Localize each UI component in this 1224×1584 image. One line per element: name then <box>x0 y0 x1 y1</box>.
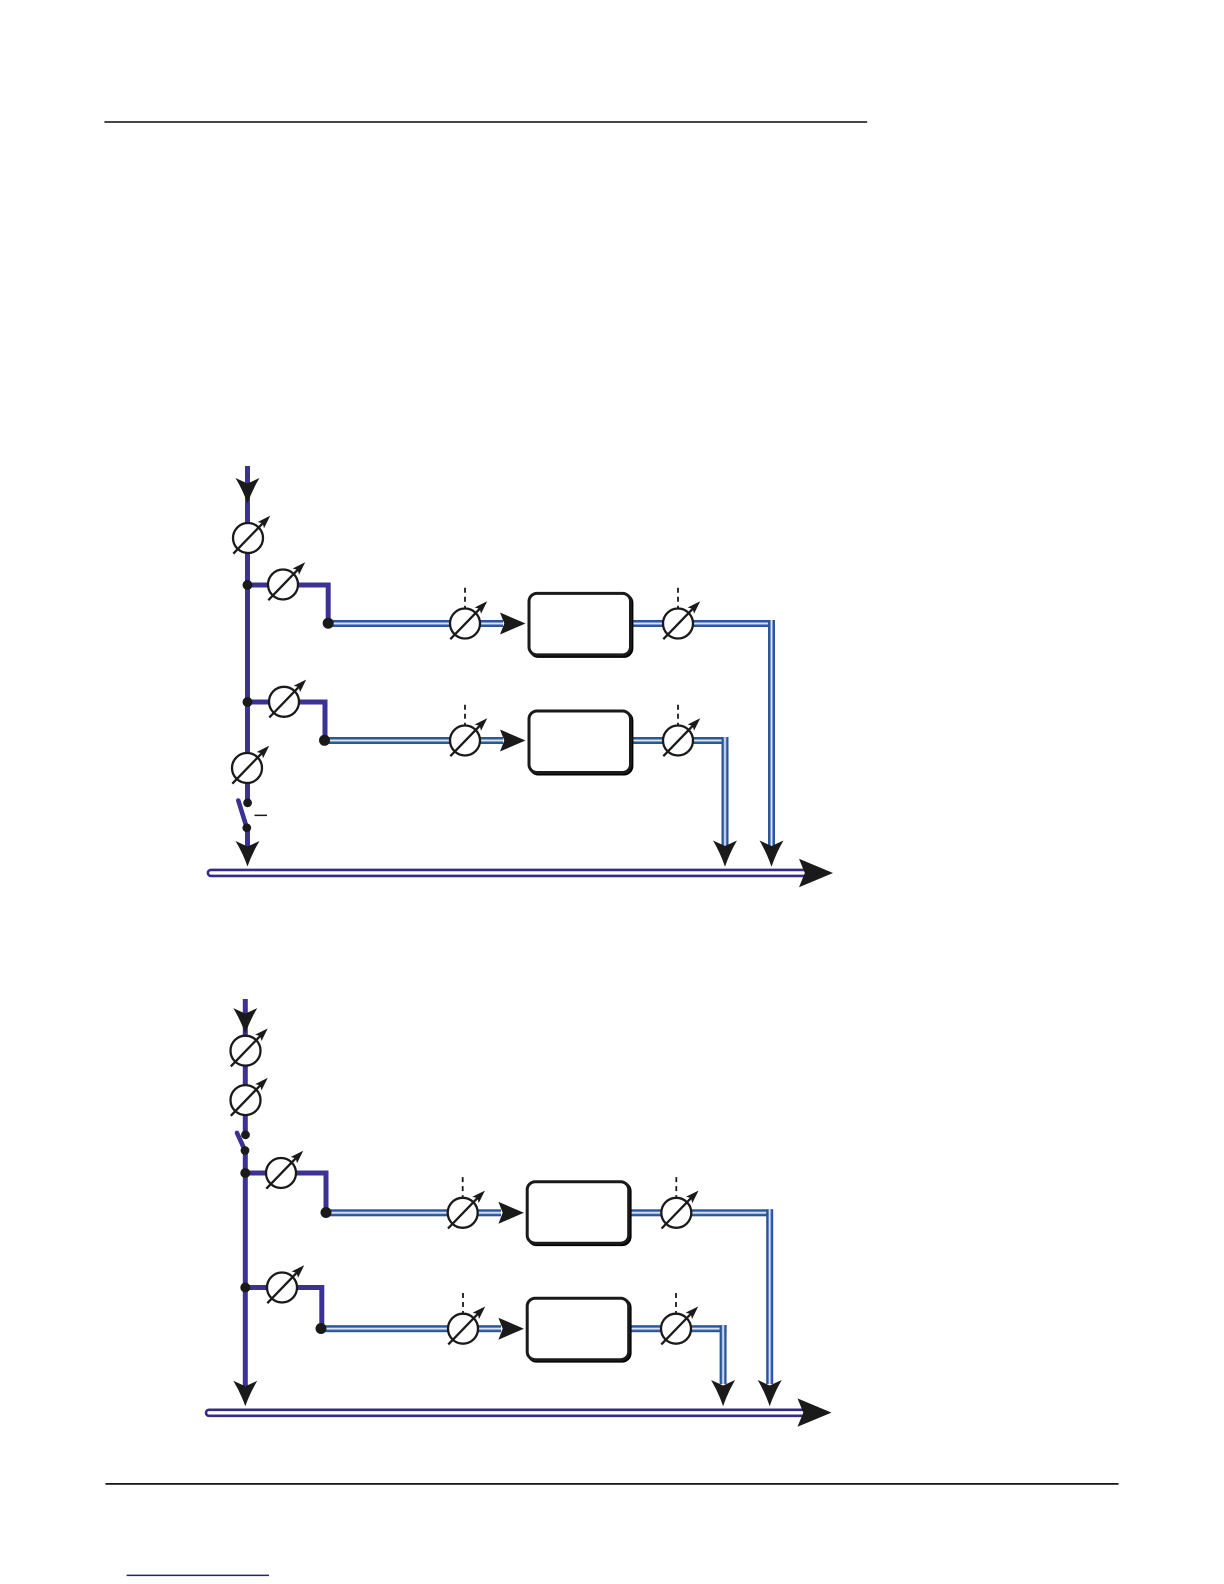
node switch top <box>241 1130 250 1139</box>
valve V4 (branch 2 feeder) <box>267 1267 303 1304</box>
switch S1 dash label <box>255 815 268 817</box>
wire supply pipe branch 2 (right segment) <box>631 737 729 744</box>
wire main supply line (below switch) <box>245 828 250 847</box>
arrow branch 2 to bus <box>711 1380 735 1406</box>
valve V1 (main line) <box>233 517 269 554</box>
wire supply pipe branch 1 (right segment) <box>631 620 776 627</box>
return bus (bottom pipe of diagram 2) <box>206 1410 806 1416</box>
wire supply pipe branch 1 (right segment) <box>629 1209 773 1216</box>
node pipe start 1 <box>321 1207 332 1218</box>
meter M4 (branch 2 outlet) <box>661 1293 697 1344</box>
consumer block 2 <box>529 711 631 773</box>
meter M4 (branch 2 outlet) <box>663 705 699 756</box>
consumer block 1 shadow <box>530 595 632 657</box>
arrow into consumer 2 <box>498 1318 524 1340</box>
wire return drop branch 1 <box>768 620 775 846</box>
header rule <box>104 121 867 123</box>
bus arrow (right) <box>798 1398 832 1426</box>
wire main supply line (below switch) <box>243 1151 248 1387</box>
consumer block 2 shadow <box>529 1300 631 1362</box>
meter M2 (branch 1 outlet) <box>661 1177 697 1228</box>
wire supply pipe branch 2 (left segment) <box>324 737 503 744</box>
arrow main to bus <box>233 1381 257 1407</box>
consumer block 1 <box>529 593 631 655</box>
switch S1 blade <box>238 801 247 828</box>
wire supply pipe branch 1 (left segment) <box>326 1209 501 1216</box>
meter M1 (branch 1 inlet) <box>450 588 486 639</box>
node junction 1 <box>243 580 253 590</box>
node junction 2 <box>240 1283 250 1293</box>
consumer block 2 shadow <box>530 713 632 775</box>
consumer block 2 <box>527 1298 629 1360</box>
footer rule <box>106 1483 1119 1485</box>
arrow into consumer 2 <box>500 730 526 752</box>
node switch bottom <box>242 823 251 832</box>
arrow main to bus <box>236 841 260 867</box>
wire main supply line (upper segment) <box>243 999 248 1136</box>
wire main supply line (upper segment) <box>245 466 250 803</box>
meter M2 (branch 1 outlet) <box>663 588 699 639</box>
wire branch 1 feeder <box>245 1173 326 1211</box>
consumer block 1 shadow <box>529 1183 631 1245</box>
wire branch 2 feeder <box>248 702 326 739</box>
valve V2 (main line) <box>231 1079 267 1116</box>
arrow supply inlet <box>233 1008 257 1034</box>
valve V2 (branch 1 feeder) <box>268 564 304 601</box>
wire branch 2 feeder <box>245 1288 321 1328</box>
node switch top <box>243 798 252 807</box>
node junction 1 <box>240 1168 250 1178</box>
wire return drop branch 2 <box>722 737 729 846</box>
valve V3 (branch 2 feeder) <box>269 681 305 718</box>
arrow supply inlet <box>236 478 260 504</box>
arrow into consumer 1 <box>498 1202 524 1224</box>
switch S2 blade <box>237 1133 245 1151</box>
wire supply pipe branch 2 (right segment) <box>629 1325 727 1332</box>
footnote underline <box>127 1575 269 1577</box>
meter M1 (branch 1 inlet) <box>448 1177 484 1228</box>
arrow branch 1 to bus <box>758 1380 782 1406</box>
return bus (bottom pipe of diagram 1) <box>208 870 810 876</box>
arrow branch 2 to bus <box>713 841 737 867</box>
wire supply pipe branch 2 (left segment) <box>321 1325 501 1332</box>
meter M3 (branch 2 inlet) <box>448 1293 484 1344</box>
consumer block 1 <box>527 1182 629 1244</box>
wire supply pipe branch 1 (left segment) <box>328 620 503 627</box>
node pipe start 1 <box>323 618 334 629</box>
meter M3 (branch 2 inlet) <box>450 705 486 756</box>
valve V4 (main line lower) <box>232 747 268 784</box>
wire return drop branch 2 <box>720 1325 727 1384</box>
bus arrow (right) <box>799 859 833 887</box>
wire branch 1 feeder <box>248 585 329 622</box>
arrow into consumer 1 <box>500 613 526 635</box>
node junction 2 <box>243 697 253 707</box>
node switch bottom <box>241 1146 250 1155</box>
node pipe start 2 <box>319 735 330 746</box>
wire return drop branch 1 <box>766 1209 773 1384</box>
node pipe start 2 <box>316 1323 327 1334</box>
valve V1 (main line) <box>231 1030 267 1067</box>
valve V3 (branch 1 feeder) <box>266 1152 302 1189</box>
arrow branch 1 to bus <box>760 841 784 867</box>
